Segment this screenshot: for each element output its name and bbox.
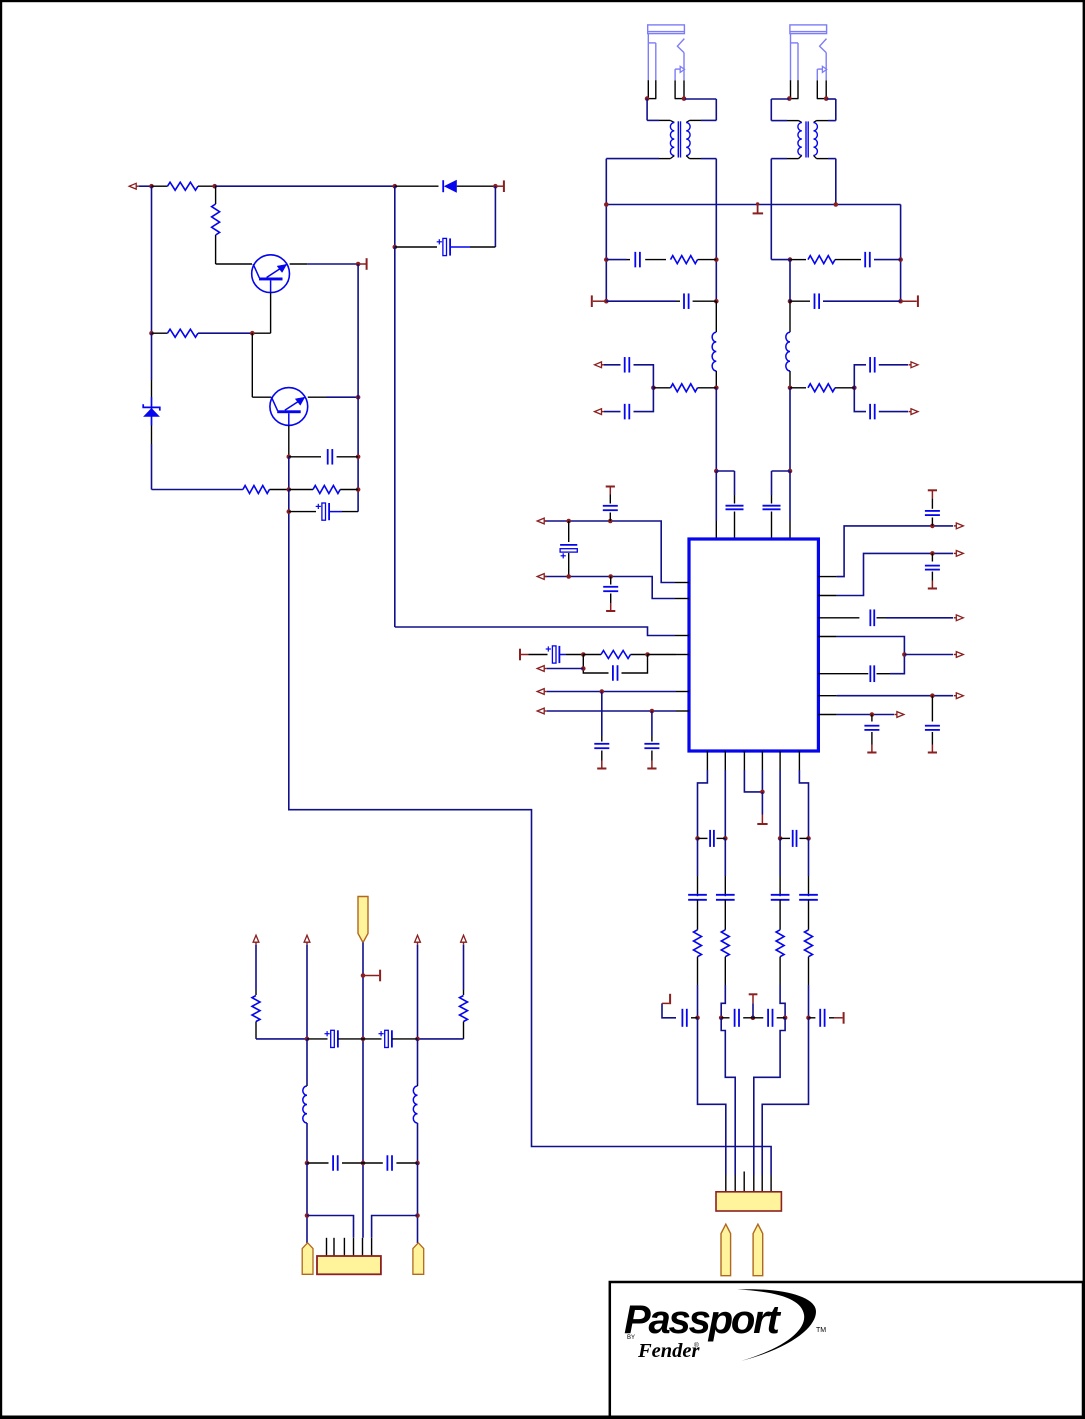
svg-text:Passport: Passport xyxy=(624,1298,781,1342)
svg-text:BY: BY xyxy=(627,1335,635,1341)
svg-text:Fender: Fender xyxy=(637,1340,701,1362)
svg-text:®: ® xyxy=(694,1341,699,1349)
svg-text:TM: TM xyxy=(816,1327,826,1334)
